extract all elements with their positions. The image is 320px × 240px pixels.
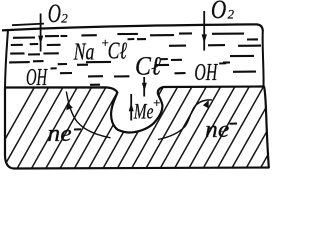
svg-text:Cℓ: Cℓ xyxy=(108,37,127,64)
extra pen stroke on top border left xyxy=(12,24,44,26)
svg-text:2: 2 xyxy=(228,6,235,21)
Me+ arrow out of pit xyxy=(130,94,132,121)
svg-text:O: O xyxy=(48,0,61,28)
svg-text:OH: OH xyxy=(26,64,48,91)
svg-text:Cℓ: Cℓ xyxy=(135,53,161,81)
svg-text:OH: OH xyxy=(194,60,218,86)
O2 arrow left xyxy=(40,14,42,52)
svg-text:2: 2 xyxy=(61,10,68,25)
svg-text:O: O xyxy=(211,0,226,24)
metal outline with pit xyxy=(5,87,269,169)
svg-text:+: + xyxy=(152,95,161,110)
water dashes, right zone xyxy=(150,33,261,73)
electrolyte box: top border xyxy=(2,24,263,31)
water dashes, middle zone xyxy=(77,34,182,85)
svg-text:ne: ne xyxy=(205,117,229,143)
ne- arc right xyxy=(158,100,212,140)
O2 arrow right xyxy=(203,11,205,51)
svg-text:Na: Na xyxy=(73,38,95,65)
svg-text:Me: Me xyxy=(133,100,153,124)
electrolyte box: right border xyxy=(262,31,265,87)
metal body (hatched region with corrosion pit) xyxy=(0,84,308,170)
electrolyte box: left border xyxy=(5,30,8,88)
hatch lines xyxy=(0,84,308,170)
ne- arc left xyxy=(66,92,110,138)
Cl- arrow into pit xyxy=(143,77,145,97)
water dashes, left zone xyxy=(9,36,72,73)
svg-text:ne: ne xyxy=(47,121,71,147)
